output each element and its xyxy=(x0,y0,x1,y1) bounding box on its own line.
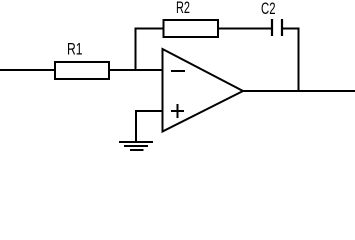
svg-text:R2: R2 xyxy=(176,0,190,17)
wire output xyxy=(243,90,355,92)
label R1 xyxy=(67,40,83,59)
op-amp U1 xyxy=(163,49,244,132)
wire non-inverting input to ground corner xyxy=(135,110,163,112)
capacitor C2 xyxy=(272,19,282,36)
minus sign (inverting input) xyxy=(171,70,185,72)
ground xyxy=(119,142,153,150)
svg-text:C2: C2 xyxy=(261,0,276,18)
wire C2 right plate to elbow xyxy=(283,28,300,30)
wire ground stem xyxy=(135,110,137,142)
wire feedback vertical branch xyxy=(135,28,137,71)
wire feedback down to output xyxy=(298,28,300,92)
label R2 xyxy=(176,0,190,17)
plus sign (non-inverting input) xyxy=(171,104,184,118)
resistor R2 xyxy=(164,20,219,37)
resistor R1 xyxy=(55,62,109,79)
svg-text:R1: R1 xyxy=(67,40,83,59)
wire feedback horizontal to R2 and C2 xyxy=(135,28,272,30)
wire input left to op-amp inverting input xyxy=(0,69,163,71)
label C2 xyxy=(261,0,276,18)
